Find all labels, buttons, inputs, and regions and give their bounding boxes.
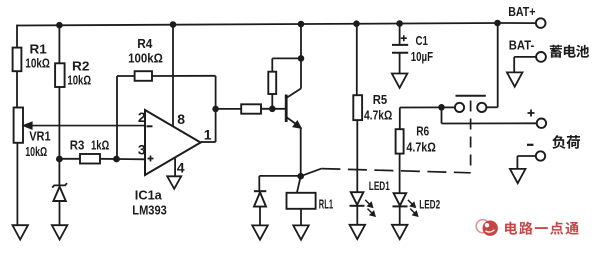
- resistor R3: [80, 154, 100, 164]
- terminal BAT+ circle: [536, 18, 546, 28]
- node rail-R5: [353, 20, 360, 27]
- op-amp minus sign: [147, 125, 153, 127]
- wire diode to ground: [259, 207, 261, 226]
- node R3 left: [56, 156, 63, 163]
- switch blade: [456, 95, 486, 97]
- wire R4 to output node: [215, 76, 217, 142]
- transistor Q1 emitter diagonal: [286, 117, 299, 127]
- svg-text:R1: R1: [30, 42, 47, 57]
- svg-text:LED2: LED2: [419, 197, 440, 211]
- terminal BAT- circle: [536, 52, 546, 62]
- ground LED2: [392, 225, 408, 239]
- wire top supply rail: [17, 23, 498, 26]
- op-amp U1 IC1a triangle: [145, 110, 201, 175]
- LED2 arrows: [408, 200, 418, 216]
- wire R4 right: [152, 75, 216, 77]
- switch left contact: [455, 103, 464, 112]
- resistor Rc pull-up: [268, 72, 276, 94]
- linkage dashed vertical: [470, 101, 472, 173]
- wire R3 node to zener: [58, 159, 60, 185]
- svg-text:3: 3: [138, 142, 146, 158]
- wire VR1 wiper to pin 2: [26, 125, 145, 127]
- wire output pin 1: [201, 141, 216, 143]
- VR1 wiper arrowhead: [23, 122, 32, 129]
- label load chinese: [552, 135, 565, 149]
- wire rail to C1: [399, 24, 401, 45]
- zener DZ triangle: [53, 187, 65, 201]
- svg-text:10kΩ: 10kΩ: [25, 145, 47, 159]
- wire R3 left: [59, 158, 80, 160]
- resistor Rb base: [241, 104, 261, 113]
- node rail-R2: [56, 22, 63, 29]
- node output: [212, 106, 219, 113]
- svg-text:BAT-: BAT-: [509, 38, 534, 53]
- svg-text:100kΩ: 100kΩ: [128, 51, 163, 66]
- ground C1: [392, 74, 408, 88]
- diode D1 triangle: [254, 192, 266, 206]
- wire LED1 to ground: [356, 206, 358, 225]
- transistor Q1 collector diagonal: [286, 89, 301, 99]
- wire diode top: [258, 176, 260, 191]
- diode D1 cathode bar: [254, 190, 266, 192]
- terminal load- circle: [536, 151, 545, 160]
- wire output to base resistor: [216, 108, 242, 110]
- ground LED1: [350, 225, 366, 239]
- wire R3 to pin 3: [100, 158, 145, 161]
- node rail-Q1 collector: [298, 21, 305, 28]
- resistor R6: [396, 129, 404, 153]
- relay RL1 coil: [287, 193, 316, 209]
- LED1 cathode bar: [350, 205, 365, 207]
- wire to right contact: [487, 106, 498, 108]
- node base: [269, 106, 276, 113]
- wire BAT+ down to contact: [497, 23, 499, 107]
- node rail-pin8: [170, 21, 177, 28]
- svg-text:C1: C1: [416, 33, 428, 48]
- node collector branch: [298, 55, 305, 62]
- wire BAT- down: [513, 57, 515, 73]
- wire emitter to relay node: [300, 127, 302, 176]
- svg-text:10kΩ: 10kΩ: [67, 73, 91, 88]
- svg-text:R3: R3: [70, 138, 85, 153]
- wire switch node to R6 top: [399, 108, 401, 130]
- wire R4 left horizontal: [117, 75, 135, 77]
- wire R6 to LED2: [399, 154, 401, 194]
- label load plus: [528, 110, 535, 117]
- switch right contact: [477, 103, 486, 112]
- resistor R5: [353, 95, 362, 120]
- wire base resistor to Q1: [261, 108, 286, 110]
- ground load-: [510, 169, 526, 183]
- label battery chinese: [550, 45, 562, 58]
- svg-text:10kΩ: 10kΩ: [25, 56, 50, 71]
- svg-text:LED1: LED1: [369, 179, 390, 193]
- wire left contact to node: [442, 106, 455, 108]
- svg-text:IC1a: IC1a: [135, 187, 163, 202]
- LED2 triangle: [394, 193, 407, 205]
- wire relay coil to ground: [300, 209, 302, 226]
- svg-text:10µF: 10µF: [411, 49, 433, 64]
- wire pin 4 to ground: [174, 159, 176, 177]
- wire zener to ground: [59, 201, 61, 225]
- svg-text:R2: R2: [72, 59, 89, 74]
- resistor R4: [135, 71, 152, 81]
- wire BAT- left: [514, 56, 536, 58]
- node rail-C1: [396, 20, 403, 27]
- terminal load+ circle: [537, 119, 546, 128]
- svg-text:RL1: RL1: [319, 197, 333, 212]
- wire pull-up to collector node: [272, 57, 301, 59]
- node pin3: [113, 156, 120, 163]
- ground pin 4: [167, 176, 181, 189]
- svg-text:R4: R4: [137, 36, 153, 51]
- label load minus: [527, 144, 534, 146]
- resistor R2: [55, 63, 65, 87]
- node relay: [297, 173, 304, 180]
- wire R1 to VR1: [16, 71, 18, 107]
- wire rail to R2: [58, 25, 60, 63]
- node switch: [438, 104, 445, 111]
- svg-text:4.7kΩ: 4.7kΩ: [364, 108, 393, 123]
- wire relay node to coil: [297, 176, 301, 193]
- wire collector vertical: [300, 24, 302, 89]
- wire rail to R5: [356, 24, 358, 96]
- ground diode: [252, 225, 268, 239]
- wire load- left: [517, 155, 535, 157]
- svg-text:R5: R5: [373, 92, 387, 107]
- wire load- down: [516, 156, 518, 169]
- wire R5 to LED1: [356, 120, 358, 192]
- ground BAT-: [507, 72, 523, 86]
- node rail-BAT+: [494, 20, 501, 27]
- transistor Q1 base bar: [285, 95, 288, 123]
- wire pull-up top: [271, 58, 273, 71]
- LED1 arrows: [365, 200, 375, 216]
- logo text: [505, 222, 517, 235]
- wire pull-up bottom: [271, 94, 273, 109]
- svg-text:4: 4: [177, 160, 185, 176]
- ground zener: [52, 225, 68, 239]
- svg-text:R6: R6: [416, 124, 429, 139]
- capacitor C1 bottom plate: [392, 52, 408, 54]
- wire node down: [441, 107, 443, 123]
- ground VR1 bottom: [12, 225, 28, 239]
- svg-text:VR1: VR1: [29, 130, 51, 144]
- LED2 cathode bar: [393, 205, 408, 207]
- LED1 triangle: [351, 192, 364, 205]
- svg-text:8: 8: [177, 111, 185, 127]
- capacitor C1 plus sign: [401, 35, 407, 41]
- wire to load+: [442, 122, 537, 124]
- ground relay: [293, 225, 309, 239]
- wire rail to R1: [16, 25, 18, 48]
- wire R4 left vertical: [116, 76, 118, 159]
- resistor R1: [13, 48, 22, 72]
- svg-text:LM393: LM393: [132, 203, 167, 218]
- logo icon: [476, 220, 498, 236]
- wire C1 to ground: [399, 53, 401, 74]
- transistor Q1 emitter arrowhead: [293, 121, 301, 128]
- wire R2 to R3 node: [58, 87, 60, 159]
- wire rail to BAT+ terminal: [498, 22, 536, 24]
- wire LED2 to ground: [399, 207, 401, 225]
- wire node to R6: [400, 106, 442, 108]
- linkage dashed horizontal: [321, 169, 470, 173]
- capacitor C1 top plate: [392, 44, 408, 46]
- zener DZ cathode bar: [52, 183, 67, 187]
- svg-text:1: 1: [204, 127, 212, 143]
- potentiometer VR1: [14, 108, 23, 143]
- op-amp plus sign: [148, 156, 154, 162]
- wire linkage solid: [301, 169, 322, 177]
- wire relay node to diode: [259, 175, 300, 177]
- svg-text:BAT+: BAT+: [508, 4, 536, 19]
- svg-text:4.7kΩ: 4.7kΩ: [406, 140, 436, 155]
- wire VR1 to ground: [16, 143, 18, 226]
- svg-text:1kΩ: 1kΩ: [91, 138, 110, 153]
- svg-text:2: 2: [138, 109, 146, 125]
- wire pin 8 from rail: [172, 25, 174, 127]
